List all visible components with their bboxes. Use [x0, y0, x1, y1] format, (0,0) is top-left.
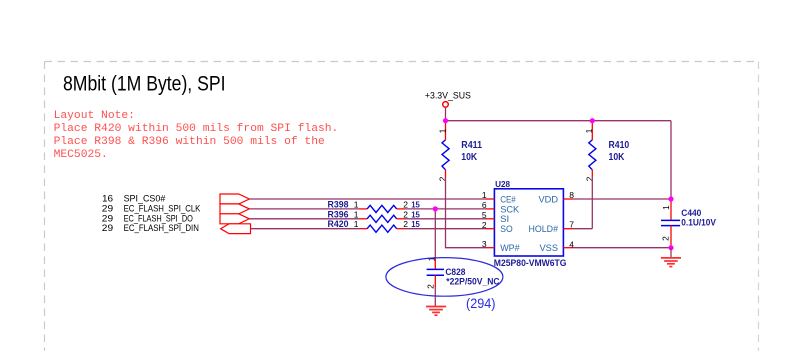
dashed page border left: [44, 62, 46, 351]
wire HOLD# to R410: [573, 228, 592, 230]
junction dot at SCK / C828 branch: [433, 206, 438, 211]
svg-text:MEC5025.: MEC5025.: [54, 149, 108, 161]
svg-text:R398: R398: [328, 199, 349, 209]
R420 zigzag body: [367, 225, 397, 232]
svg-text:R420: R420: [328, 219, 349, 229]
svg-text:WP#: WP#: [500, 243, 520, 254]
wire R410 to HOLD# vertical: [591, 177, 593, 229]
pin stub SI pin 5: [486, 218, 494, 220]
+3.3V_SUS circle: [443, 102, 449, 108]
svg-text:1: 1: [661, 205, 671, 210]
C440 pin 1 stub: [670, 199, 672, 220]
R396 pin 1 stub: [360, 218, 368, 220]
resistor R398: [328, 199, 420, 212]
svg-text:2: 2: [403, 209, 408, 219]
C440 pin 2 stub: [670, 226, 672, 248]
off-page connector EC_FLASH_SPI_CLK (output arrow): [220, 204, 249, 214]
C440 bottom plate: [661, 225, 680, 227]
svg-text:1: 1: [354, 209, 359, 219]
R398 zigzag body: [367, 205, 397, 212]
R420 pin 2 stub: [397, 228, 405, 230]
U28 body outline: [494, 189, 563, 256]
R398 pin 1 stub: [360, 208, 368, 210]
resistor R411: [437, 121, 482, 182]
off-page connector EC_FLASH_SPI_DO (output arrow): [220, 214, 249, 224]
wire DO row left of R396: [249, 218, 359, 220]
R411 pin 1 stub: [445, 121, 447, 140]
svg-text:15: 15: [411, 219, 420, 229]
capacitor C440: [661, 199, 716, 248]
R396 zigzag body: [367, 215, 397, 222]
layout note text: [54, 110, 339, 161]
wire DIN row left of R420: [251, 228, 360, 230]
svg-text:5: 5: [482, 210, 487, 220]
svg-text:10K: 10K: [609, 152, 626, 163]
svg-text:2: 2: [482, 220, 487, 230]
chip U28 M25P80: [494, 179, 567, 268]
variant ellipse around C828: [386, 258, 503, 297]
wire CLK row right of R398: [405, 208, 487, 210]
svg-text:C440: C440: [681, 208, 701, 218]
svg-text:R396: R396: [328, 209, 349, 219]
svg-text:3: 3: [482, 239, 487, 249]
C828 pin 1 stub: [434, 258, 436, 269]
svg-text:6: 6: [482, 200, 487, 210]
svg-text:Layout Note:: Layout Note:: [54, 110, 135, 122]
R410 pin 2 stub: [591, 170, 593, 177]
svg-text:1: 1: [354, 199, 359, 209]
dashed page border right: [758, 62, 760, 351]
R420 pin 1 stub: [360, 228, 368, 230]
junction dot at +3.3V / R411: [443, 118, 448, 123]
R411 pin 2 stub: [445, 170, 447, 178]
net label SPI_CS0#: [102, 194, 166, 205]
wire C828 to ground: [434, 287, 436, 307]
svg-text:HOLD#: HOLD#: [529, 224, 559, 235]
wire +3.3V rail horizontal: [446, 120, 672, 122]
wire DO row right of R396: [405, 218, 487, 220]
pin stub HOLD# pin 7: [563, 228, 573, 230]
svg-text:29: 29: [102, 223, 113, 234]
resistor R396: [328, 209, 420, 222]
R411 zigzag body: [442, 140, 449, 170]
svg-text:1: 1: [482, 190, 487, 200]
pin stub WP# pin 3: [486, 247, 494, 249]
svg-text:1: 1: [437, 128, 447, 133]
net label EC_FLASH_SPI_CLK: [102, 203, 201, 214]
dashed page border top: [45, 61, 759, 63]
wire power stub to junction: [445, 107, 447, 121]
resistor R410: [584, 121, 629, 182]
svg-text:15: 15: [411, 209, 420, 219]
net label EC_FLASH_SPI_DO: [102, 213, 193, 224]
svg-text:*22P/50V_NC: *22P/50V_NC: [446, 276, 500, 286]
ground symbol below C440: [661, 258, 681, 267]
svg-text:2: 2: [403, 199, 408, 209]
power symbol +3.3V_SUS: [425, 91, 471, 108]
R398 pin 2 stub: [397, 208, 405, 210]
pin stub SO pin 2: [486, 228, 494, 230]
wire SCK junction to C828: [434, 209, 436, 258]
pin stub CE# pin 1: [486, 198, 494, 200]
R410 pin 1 stub: [591, 121, 593, 140]
svg-text:R410: R410: [609, 140, 630, 151]
svg-text:R411: R411: [461, 140, 482, 151]
wire VDD to right rail: [573, 198, 671, 200]
svg-text:SO: SO: [500, 224, 513, 235]
ground stub below C440: [670, 248, 672, 258]
junction dot at VDD / right rail: [668, 196, 673, 201]
C828 top plate: [427, 268, 444, 270]
svg-text:8Mbit (1M Byte), SPI: 8Mbit (1M Byte), SPI: [63, 71, 226, 95]
R396 pin 2 stub: [397, 218, 405, 220]
svg-text:U28: U28: [495, 179, 510, 189]
svg-text:10K: 10K: [461, 152, 478, 163]
svg-text:15: 15: [411, 199, 420, 209]
svg-text:EC_FLASH_SPI_DIN: EC_FLASH_SPI_DIN: [124, 223, 199, 234]
svg-text:2: 2: [426, 284, 436, 289]
svg-text:2: 2: [403, 219, 408, 229]
pin stub VSS pin 4: [563, 247, 573, 249]
resistor R420: [328, 219, 420, 232]
net label EC_FLASH_SPI_DIN: [102, 223, 199, 234]
C440 top plate: [661, 219, 680, 221]
svg-text:M25P80-VMW6TG: M25P80-VMW6TG: [494, 258, 567, 268]
wire +3.3V rail right drop: [670, 121, 672, 199]
wire DIN row right of R420: [405, 228, 487, 230]
junction dot at VSS / C440 ground: [668, 245, 673, 250]
ground symbol below C828: [426, 307, 446, 316]
R410 zigzag body: [589, 140, 596, 170]
off-page connector SPI_CS0# (output arrow): [220, 194, 249, 204]
C828 bottom plate: [427, 274, 444, 276]
svg-text:0.1U/10V: 0.1U/10V: [681, 218, 716, 228]
svg-text:+3.3V_SUS: +3.3V_SUS: [425, 91, 471, 102]
svg-text:Place R420 within 500 mils fro: Place R420 within 500 mils from SPI flas…: [54, 123, 339, 135]
wire R411 to WP# vertical: [446, 177, 487, 247]
wire CLK row left of R398: [249, 208, 359, 210]
svg-text:VSS: VSS: [540, 243, 559, 254]
pin stub VDD pin 8: [563, 198, 573, 200]
wire SPI_CS0# row: [249, 198, 486, 200]
svg-text:1: 1: [584, 128, 594, 133]
off-page connector EC_FLASH_SPI_DIN (input arrow): [221, 224, 251, 234]
wire VSS to C440 ground column: [573, 247, 671, 249]
junction dot at rail / R410: [590, 118, 595, 123]
svg-text:Place R398 & R396 within 500 m: Place R398 & R396 within 500 mils of the: [54, 136, 325, 148]
svg-text:(294): (294): [466, 296, 496, 311]
pin stub SCK pin 6: [486, 208, 494, 210]
svg-text:VDD: VDD: [539, 194, 559, 205]
svg-text:2: 2: [661, 236, 671, 241]
svg-text:1: 1: [354, 219, 359, 229]
capacitor C828: [426, 256, 500, 289]
C828 pin 2 stub: [434, 275, 436, 287]
